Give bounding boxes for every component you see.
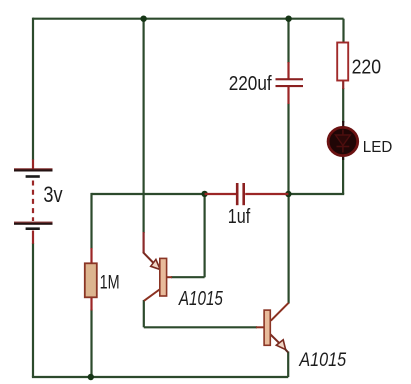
- svg-text:1uf: 1uf: [228, 206, 251, 228]
- svg-text:3v: 3v: [43, 182, 62, 207]
- svg-text:1M: 1M: [100, 271, 120, 293]
- svg-text:220: 220: [352, 56, 382, 78]
- svg-text:LED: LED: [363, 139, 393, 156]
- svg-text:A1015: A1015: [178, 288, 223, 310]
- svg-text:A1015: A1015: [299, 350, 347, 371]
- svg-text:220uf: 220uf: [229, 72, 272, 95]
